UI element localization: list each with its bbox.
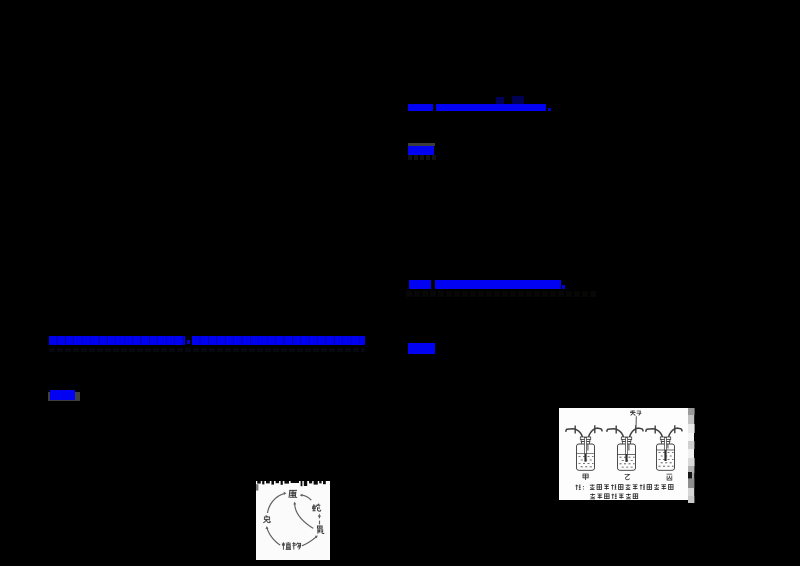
exhaust tube of 丙 <box>668 428 682 438</box>
blue bar 1 tall glyph nub b <box>512 96 524 104</box>
liquid surface line of 丙 <box>657 449 675 451</box>
faint glyph bottoms under bar 2 <box>408 155 438 160</box>
left intake tube of 甲 <box>566 429 583 438</box>
label 乙 <box>625 474 630 479</box>
blue bar 3 period <box>562 285 565 289</box>
label 丙 <box>667 474 673 480</box>
arrow 植物→鼠 <box>302 537 316 546</box>
black text of line above overlapping top edge of inset <box>257 479 326 486</box>
node 蛇 (snake) <box>313 504 321 512</box>
blue answer bar 5 <box>50 390 75 400</box>
leader line from 夹子 to middle bottle exhaust tube <box>635 416 637 428</box>
long inner tube of 丙 <box>665 438 667 450</box>
arrow 鼠→鹰 (inner curve) <box>295 504 314 529</box>
blue bar 1 tall glyph nub a <box>496 97 504 104</box>
gray notch on left edge <box>256 484 258 490</box>
label 甲 <box>583 474 588 480</box>
faint next text line under bar 4 <box>49 348 365 353</box>
short inner tube of 乙 <box>628 444 630 451</box>
exhaust tick of 丙 <box>674 425 676 433</box>
exhaust tube of 甲 <box>588 428 602 438</box>
liquid dashes of 乙 <box>620 457 635 467</box>
cap of 甲 <box>580 437 590 444</box>
blue answer bar 2 <box>408 146 434 155</box>
long inner tube of 乙 <box>626 438 628 455</box>
blue answer text line 4 phrase 2 <box>192 336 365 345</box>
blue answer bar 3 segment a <box>409 280 431 289</box>
blue answer bar 6 (right column) <box>408 343 435 354</box>
torn gray strip right of bottles figure <box>688 408 695 503</box>
node 植 (of 植物) <box>282 542 291 550</box>
left intake tube of 乙 <box>607 429 624 438</box>
arrow 植物→兔 <box>267 528 280 545</box>
note text line 2: 右侧管为排气管 <box>590 494 638 500</box>
long inner tube of 甲 <box>585 438 587 454</box>
arrow 兔→鹰 <box>268 493 285 513</box>
liquid surface line of 乙 <box>618 453 636 455</box>
blue bar 1 period <box>548 108 551 111</box>
exhaust tube of 乙 <box>629 428 643 438</box>
blue answer bar 1 segment b <box>436 104 546 111</box>
intake tick of 甲 <box>574 426 576 434</box>
body of 乙 <box>618 444 636 470</box>
cap of 乙 <box>621 437 631 444</box>
bottle 甲 group <box>566 425 602 470</box>
blue comma between phrases of line 4 <box>187 340 190 344</box>
short inner tube of 甲 <box>587 444 589 451</box>
blue answer bar 3 segment b <box>435 280 561 289</box>
bottle 丙 group <box>646 425 682 470</box>
bottle 乙 group <box>607 425 643 470</box>
node 鹰 (hawk) <box>289 490 297 497</box>
liquid dashes of 丙 <box>659 453 674 467</box>
body of 丙 <box>657 444 675 470</box>
夹子 clamp label <box>630 410 641 415</box>
node 兔 (rabbit) <box>263 516 270 523</box>
exhaust tick of 乙 <box>635 425 637 433</box>
gray backdrop of answer bar 5 <box>48 392 80 401</box>
note text line 1: 注：各发酵瓶的左侧管为充气管 <box>576 484 674 490</box>
body of 甲 <box>577 444 595 470</box>
arrow 鼠→蛇 (dashed) <box>318 516 320 525</box>
blue answer bar 1 segment a <box>408 104 433 111</box>
intake tick of 丙 <box>654 426 656 434</box>
faint next text line under bar 3 <box>406 291 598 297</box>
blue answer text line 4 phrase 1 <box>49 336 185 345</box>
short inner tube of 丙 <box>667 444 669 449</box>
arrow 蛇→鹰 <box>301 495 311 500</box>
exhaust tick of 甲 <box>594 425 596 433</box>
gray sliver above bar 2 <box>408 143 435 146</box>
node 鼠 (mouse) <box>318 526 325 534</box>
liquid dashes of 甲 <box>579 457 594 467</box>
food web figure (white inset) <box>256 481 330 560</box>
left intake tube of 丙 <box>646 429 663 438</box>
node 物 (of 植物) <box>292 542 300 550</box>
cap of 丙 <box>660 437 670 444</box>
intake tick of 乙 <box>615 426 617 434</box>
fermentation bottles figure (white inset) <box>559 408 690 500</box>
liquid surface line of 甲 <box>577 453 595 455</box>
